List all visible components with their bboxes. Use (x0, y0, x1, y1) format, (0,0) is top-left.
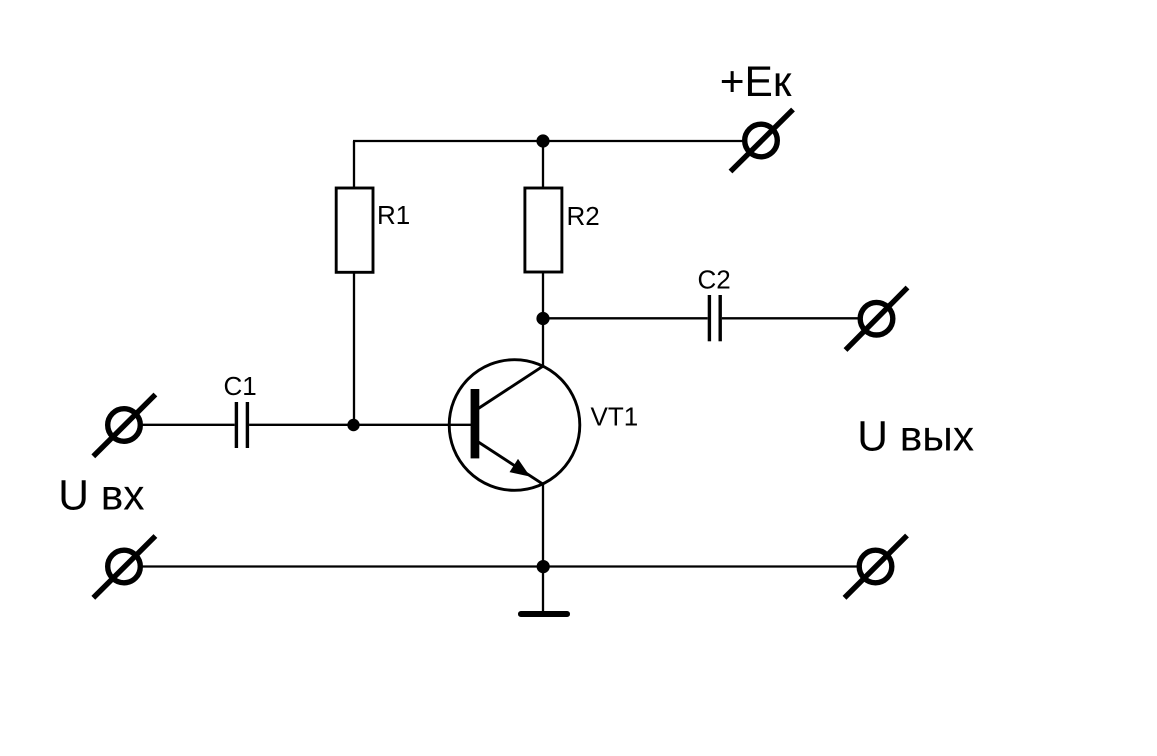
wire: bottom rail (143, 565, 858, 567)
ground (518, 611, 570, 617)
terminal: input lower (circle with slash) (93, 536, 155, 598)
resistor R1 (336, 188, 373, 272)
svg-text:U вых: U вых (857, 414, 974, 461)
capacitor C2 (709, 295, 720, 341)
terminal +Ek (circle with slash) (731, 110, 794, 172)
wire: R1 bottom lead down to base node (353, 272, 355, 425)
resistor R2 (525, 188, 562, 272)
svg-text:C2: C2 (698, 265, 731, 295)
wire: C2 right plate to output terminal (722, 317, 858, 319)
capacitor C1 (236, 402, 247, 448)
svg-text:C1: C1 (224, 371, 257, 401)
svg-text:U вх: U вх (58, 473, 144, 520)
node: collector junction (536, 312, 549, 325)
node: junction of supply rail and R2 (536, 134, 549, 147)
wire: C1 right plate to transistor base (249, 424, 471, 426)
wire: junction to ground symbol (542, 567, 544, 612)
terminal: output lower (circle with slash) (845, 536, 908, 598)
svg-text:+Ек: +Ек (720, 59, 792, 106)
wire: collector node down to transistor (542, 319, 544, 367)
wire: transistor emitter down to ground rail (542, 484, 544, 567)
svg-text:VT1: VT1 (591, 401, 639, 431)
node: base junction with R1 (347, 419, 359, 431)
transistor VT1 emitter arrowhead (510, 459, 531, 477)
transistor VT1 body circle (449, 360, 580, 491)
transistor VT1 collector stroke (476, 366, 544, 410)
node: emitter/ground junction (537, 560, 550, 573)
transistor VT1 base bar (471, 389, 480, 458)
wire: R2 bottom lead to collector node (542, 272, 544, 319)
transistor VT1 (449, 360, 580, 491)
terminal: output upper (circle with slash) (846, 288, 908, 351)
wire: collector node to C2 left plate (543, 317, 708, 319)
terminal: input upper (circle with slash) (93, 395, 155, 457)
svg-text:R2: R2 (567, 201, 600, 231)
wire: R1 top lead (353, 141, 355, 189)
transistor VT1 emitter stroke (476, 441, 543, 485)
wire: top supply rail from R1 to +Ek terminal (353, 140, 745, 142)
svg-text:R1: R1 (377, 200, 410, 230)
wire: input terminal to C1 left plate (143, 424, 235, 426)
wire: R2 top lead (542, 141, 544, 189)
